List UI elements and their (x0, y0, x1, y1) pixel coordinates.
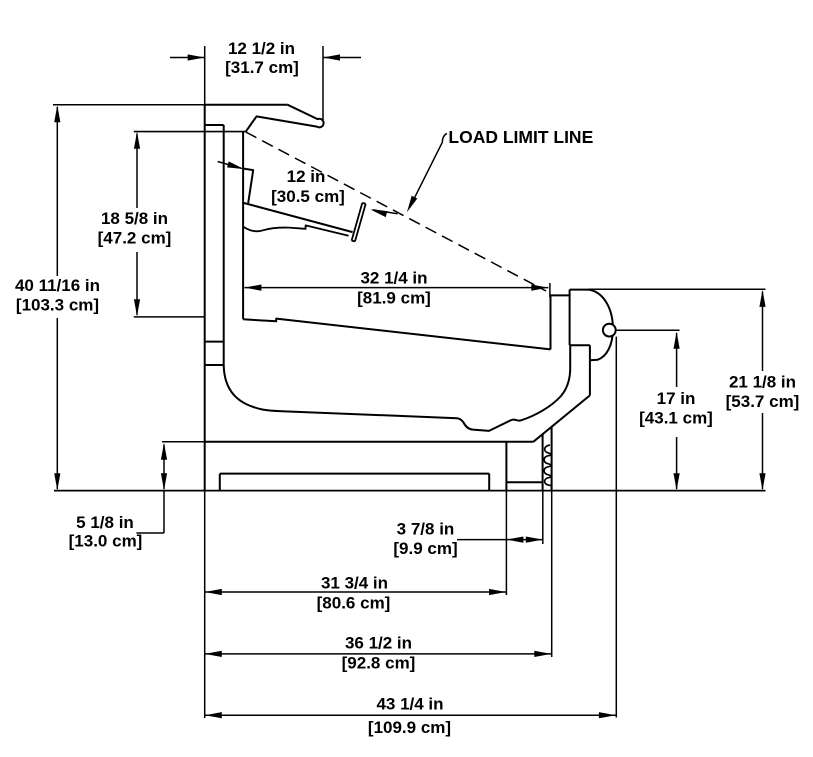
svg-text:[109.9 cm]: [109.9 cm] (368, 718, 451, 737)
front leg right edge (551, 427, 553, 491)
front panel lower face (589, 345, 591, 395)
svg-text:43 1/4 in: 43 1/4 in (376, 695, 443, 714)
dim 21 1/8 top extension (589, 288, 766, 290)
bumper circle (603, 324, 616, 337)
svg-text:[13.0 cm]: [13.0 cm] (69, 532, 143, 551)
load limit leader arrow (407, 133, 447, 212)
label 40 11/16 in (15, 276, 100, 315)
dim 12 1/2 right extension (322, 46, 324, 120)
front top step (551, 294, 570, 296)
svg-text:17 in: 17 in (657, 389, 696, 408)
canopy front edge with rounded tip (246, 105, 324, 132)
label 12 1/2 in (225, 39, 299, 77)
dim 12 1/2 right arrow (323, 54, 361, 60)
dim 17 extension (617, 329, 680, 331)
dim 40 11/16 line (54, 105, 60, 490)
label 21 1/8 in (726, 373, 800, 412)
dim 3 7/8 extensions (506, 491, 542, 595)
svg-text:5 1/8 in: 5 1/8 in (76, 513, 134, 532)
label 3 7/8 in (393, 519, 457, 557)
back panel joint tick upper (205, 341, 224, 343)
svg-text:[9.9 cm]: [9.9 cm] (393, 539, 457, 558)
label 32 1/4 in (357, 269, 431, 308)
front panel step (570, 344, 590, 346)
base kick recess top (220, 473, 489, 475)
front top surface (570, 289, 589, 291)
dim 36 1/2 line (205, 651, 552, 657)
dim 43 1/4 extensions (205, 337, 617, 718)
svg-text:12 1/2 in: 12 1/2 in (228, 39, 295, 58)
svg-text:[81.9 cm]: [81.9 cm] (357, 289, 431, 308)
label 18 5/8 in (98, 209, 172, 248)
back panel inner edge (223, 125, 225, 365)
svg-text:[103.3 cm]: [103.3 cm] (16, 296, 99, 315)
front leg thread squiggle (544, 445, 551, 486)
load limit dashed line (246, 132, 546, 291)
dim 36 1/2 extension (551, 491, 553, 657)
dim 3 7/8 line (457, 537, 543, 543)
base front face (505, 443, 507, 491)
shelf top surface (244, 203, 353, 232)
base kick right leg (488, 474, 490, 491)
svg-text:32 1/4 in: 32 1/4 in (360, 269, 427, 288)
svg-text:31 3/4 in: 31 3/4 in (321, 574, 388, 593)
svg-text:36 1/2 in: 36 1/2 in (345, 634, 412, 653)
svg-text:[53.7 cm]: [53.7 cm] (726, 392, 800, 411)
svg-text:21 1/8 in: 21 1/8 in (729, 373, 796, 392)
svg-text:12 in: 12 in (287, 167, 326, 186)
back panel top cap (205, 124, 224, 126)
dim 17 line (674, 332, 680, 491)
svg-text:[30.5 cm]: [30.5 cm] (271, 187, 345, 206)
bumper arc (589, 290, 613, 361)
shelf bracket (244, 169, 254, 203)
front interior wall (550, 295, 552, 349)
dim 32 1/4 right extension (549, 283, 551, 298)
floor / ground line (54, 490, 766, 492)
shelf underside profile (244, 225, 349, 235)
display deck (243, 319, 550, 350)
front panel inner face (569, 290, 571, 346)
base kick left leg (219, 474, 221, 491)
canopy underside ledge (134, 131, 246, 133)
base top (205, 441, 534, 443)
base top extension (5 1/8 ref) (162, 441, 205, 443)
svg-text:40 11/16 in: 40 11/16 in (15, 276, 100, 295)
svg-text:LOAD LIMIT LINE: LOAD LIMIT LINE (448, 127, 593, 147)
back panel outer edge (204, 105, 206, 491)
dim 12 1/2 left extension (204, 46, 206, 105)
dim 21 1/8 line (759, 290, 765, 490)
dim 31 3/4 line (205, 589, 506, 595)
dim 12 1/2 left arrow (170, 54, 205, 60)
svg-text:[80.6 cm]: [80.6 cm] (317, 594, 391, 613)
svg-text:[47.2 cm]: [47.2 cm] (98, 229, 172, 248)
label 43 1/4 in (368, 695, 451, 738)
shelf tag rail (352, 203, 366, 242)
label 17 in (639, 389, 713, 428)
svg-text:[92.8 cm]: [92.8 cm] (342, 654, 416, 673)
dim 5 1/8 line (161, 443, 167, 491)
dim 43 1/4 line (205, 712, 616, 718)
svg-text:3 7/8 in: 3 7/8 in (397, 519, 455, 538)
front skirt diagonal (533, 395, 590, 441)
label LOAD LIMIT LINE (448, 127, 593, 147)
label 12 in (271, 167, 345, 206)
front leg left edge (542, 434, 544, 490)
svg-text:18 5/8 in: 18 5/8 in (101, 209, 168, 228)
dim 5 1/8 leader (136, 491, 164, 533)
label 5 1/8 in (69, 513, 143, 550)
base front step (506, 481, 542, 483)
dim 18 5/8 bottom extension (134, 316, 205, 318)
dim 12 in rear arrow (218, 161, 245, 169)
dim 18 5/8 line (134, 132, 140, 316)
canopy top extension line (40 11/16 ref) (53, 104, 205, 106)
label 31 3/4 in (317, 574, 391, 613)
dim 12 in front arrow (370, 209, 397, 217)
back panel joint tick lower (205, 364, 224, 366)
basin outer shell (224, 345, 571, 431)
label 36 1/2 in (342, 634, 416, 673)
canopy top surface (205, 104, 288, 106)
svg-text:[43.1 cm]: [43.1 cm] (639, 409, 713, 428)
interior back wall (242, 132, 244, 320)
dim 32 1/4 line (244, 285, 548, 291)
svg-text:[31.7 cm]: [31.7 cm] (225, 58, 299, 77)
